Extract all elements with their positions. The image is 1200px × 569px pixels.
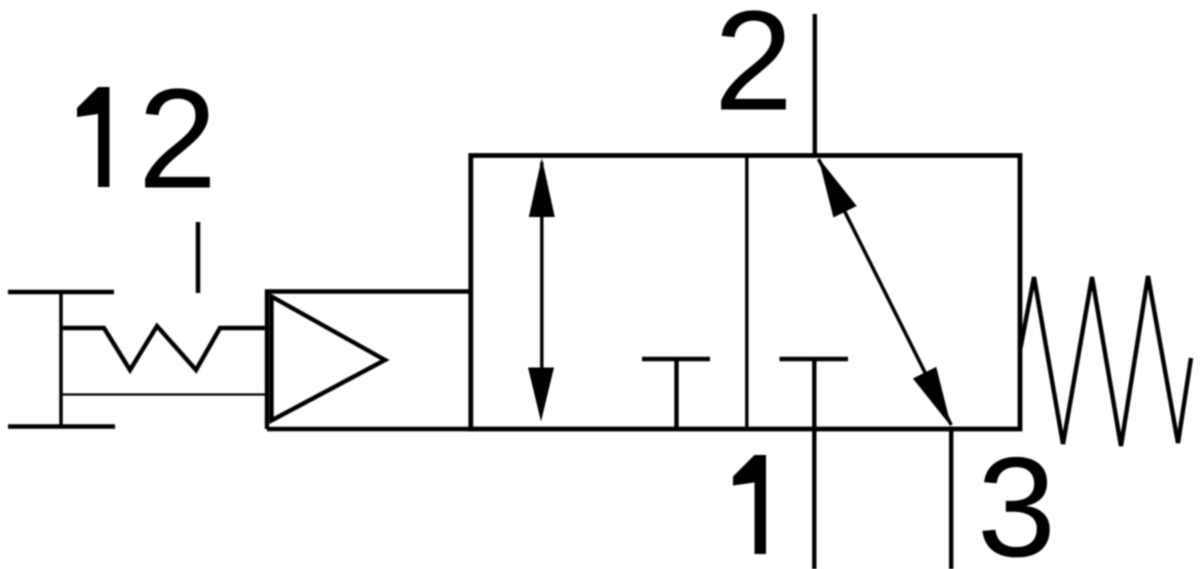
pilot amplifier box	[267, 292, 471, 430]
svg-text:2: 2	[138, 60, 217, 219]
valve position divider	[745, 156, 748, 430]
port 1 label	[733, 455, 766, 554]
port 2 line	[813, 14, 817, 156]
diagonal flow arrow shaft (right position)	[819, 159, 952, 425]
diagonal arrow bottom head	[913, 367, 951, 427]
port 12 label "1" digit	[77, 87, 110, 187]
pilot end cap vertical bar	[59, 292, 63, 427]
pilot return line	[61, 393, 267, 395]
return spring zigzag	[1021, 276, 1192, 446]
valve body bottom edge extension	[267, 427, 471, 431]
blocked port T (right position)	[780, 359, 849, 429]
svg-text:3: 3	[977, 428, 1056, 569]
port 1 line	[812, 429, 816, 569]
diagonal arrow top head	[819, 158, 857, 218]
blocked port T (left position)	[642, 359, 710, 429]
valve body outline	[471, 156, 1020, 430]
pilot spring zigzag	[61, 326, 267, 370]
port 3 line	[949, 429, 953, 569]
pilot amplifier triangle	[272, 297, 386, 421]
flow arrow bottom head	[528, 368, 554, 422]
pilot end cap top bar	[8, 290, 114, 294]
leader line from label 12 to pilot line	[196, 222, 201, 293]
svg-text:2: 2	[714, 0, 793, 141]
pilot end cap bottom bar	[8, 424, 115, 428]
flow arrow top head	[529, 158, 555, 217]
flow arrow shaft (left position)	[540, 162, 543, 405]
